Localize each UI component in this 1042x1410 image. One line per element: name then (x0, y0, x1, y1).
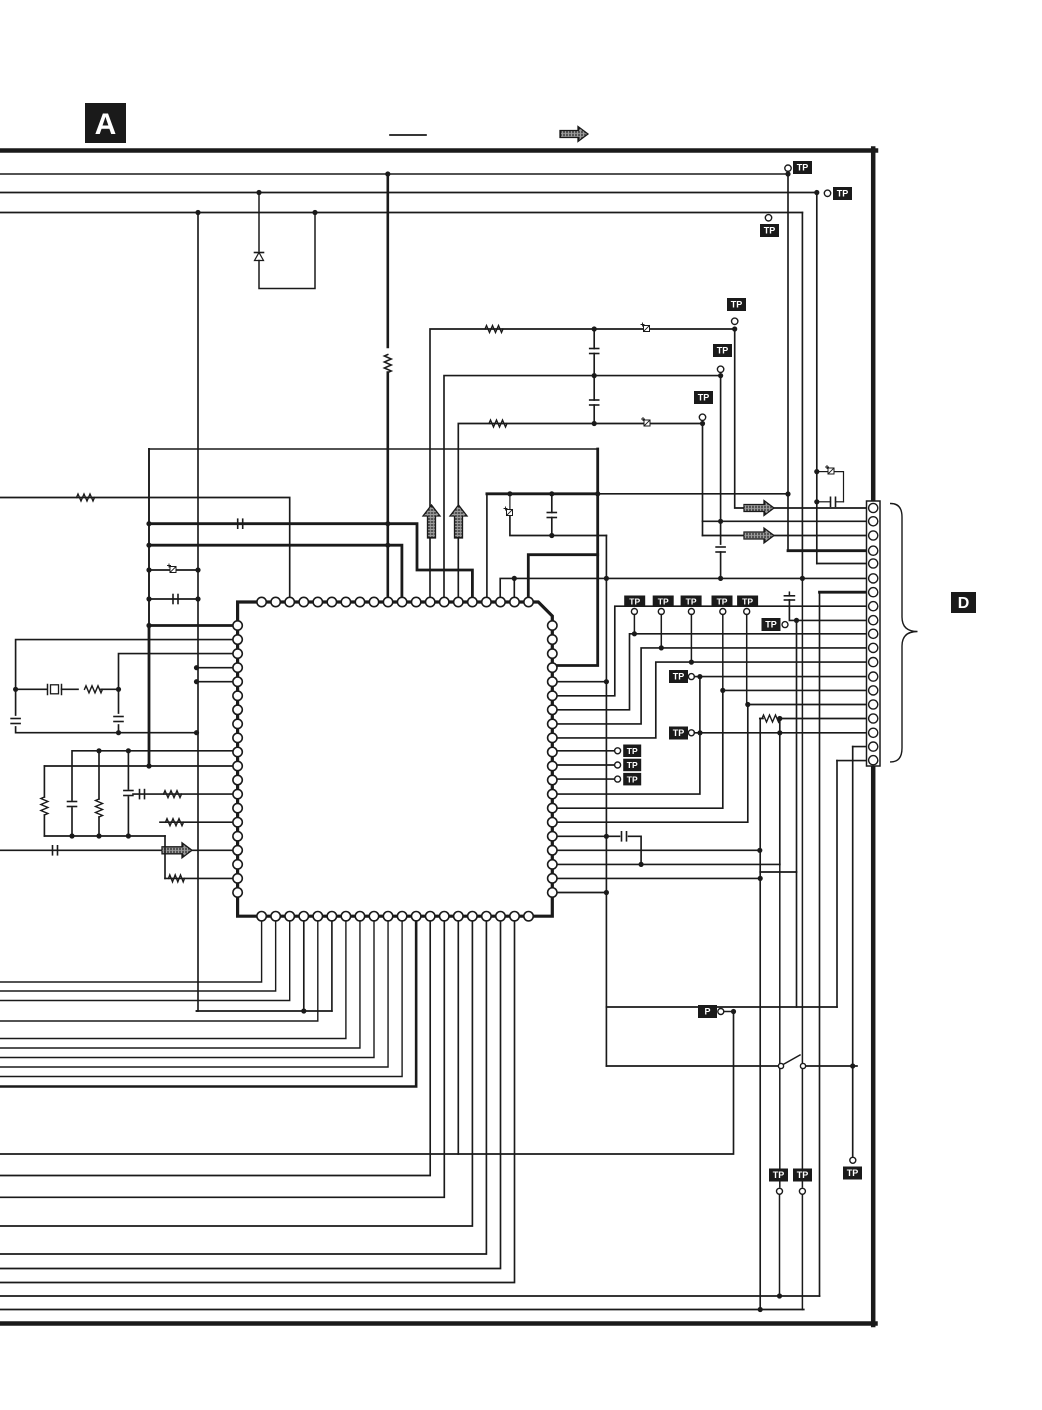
wire x819 down (819, 592, 821, 1296)
wire p3L (119, 654, 238, 713)
svg-text:TP: TP (797, 1170, 809, 1180)
wire TP5 vertical x=720 upper (720, 376, 722, 544)
wire TP5 vertical x=720 lower (720, 552, 722, 578)
test point TPs2 circle (615, 762, 621, 768)
resistor R-p19L (169, 875, 185, 882)
wire x796 upper (796, 620, 798, 872)
svg-text:TP: TP (717, 596, 728, 606)
junction x118/689 (116, 687, 121, 692)
capacitor C-K1 (238, 519, 243, 528)
junction p18/capbranch (639, 862, 644, 867)
svg-text:TP: TP (847, 1168, 859, 1178)
junction ring/625 (146, 623, 151, 628)
test point TProw2 circle (658, 609, 664, 615)
test point TProw3 circle (688, 609, 694, 615)
test point TP1 box (793, 161, 812, 174)
resistor R-p15L (166, 819, 184, 826)
wire net2 y=192.5 (0, 192, 817, 194)
wire TP4 vertical x=735 (735, 329, 747, 508)
test point TPmid1 box (669, 670, 688, 683)
wire crystal net (16, 688, 47, 690)
svg-text:TP: TP (765, 620, 777, 630)
test point TP1 circle (785, 165, 791, 171)
test point TProw5 circle (744, 609, 750, 615)
switch S1 throw (800, 1063, 805, 1068)
svg-text:TP: TP (673, 672, 685, 682)
test point TProw2 box (653, 596, 674, 608)
wire bottom bundle1 line6 (0, 916, 360, 1048)
wire ring right (thick) (553, 449, 598, 666)
capacitor C-pin9 (784, 596, 794, 600)
junction 732/x196 (194, 730, 199, 735)
wire p6R (552, 606, 869, 696)
test point TP5 circle (717, 366, 723, 372)
diode D1 (255, 253, 264, 261)
capacitor C-p17L (53, 846, 58, 855)
capacitor C-x720 (716, 547, 725, 552)
svg-text:TP: TP (773, 1170, 785, 1180)
test point TPs3 circle (615, 776, 621, 782)
wire TP1 vertical x=788 (787, 171, 789, 550)
test point TPs1 box (623, 745, 641, 758)
wire crystal to R (62, 688, 79, 690)
junction TProw1 (632, 631, 637, 636)
wire pin4b stub (303, 916, 305, 1011)
resistor R-x99 (96, 799, 103, 817)
wire x594 seg2 (593, 354, 595, 376)
wire bottom bundle1 line8 (0, 916, 388, 1067)
wire x837 (836, 761, 838, 1007)
junction p15R (745, 702, 750, 707)
svg-text:P: P (704, 1007, 710, 1017)
test point TP4 box (727, 298, 746, 311)
wire bottom bundle2 line6 (0, 916, 515, 1282)
capacitor C-x128 (124, 791, 133, 796)
offpage arrow up 1 (423, 505, 440, 538)
wire TProw2 stub (660, 615, 662, 648)
capacitor C-p13L (140, 790, 145, 799)
wire connector pin3 feed left (703, 535, 748, 537)
offpage arrow up 2 (450, 505, 467, 538)
wire connector pin3 feed right (774, 535, 869, 537)
junction x720/pin6wire (718, 576, 723, 581)
wire x853 (852, 747, 854, 1157)
wire TP6 vertical x=702 (702, 424, 704, 536)
wire x118 lower (118, 725, 120, 733)
wire p12R stub (552, 778, 614, 780)
polar symbol y570 (168, 564, 177, 573)
wire p9R (552, 662, 869, 738)
crystal X1 (48, 685, 62, 695)
junction K1/x388 (385, 521, 390, 526)
junction P/x733 (731, 1009, 736, 1014)
wire x803 below circle (801, 1195, 803, 1310)
junction x760/1309 (758, 1307, 763, 1312)
junction TP1 (785, 171, 790, 176)
junction 535/cap552 (549, 533, 554, 538)
resistor R-A (485, 326, 503, 333)
wire step y872 (760, 871, 796, 873)
wire TProw5 stub (746, 615, 748, 705)
junction ring/K2 (146, 543, 151, 548)
wire p19L vert (164, 836, 166, 878)
junction TProw2 (659, 645, 664, 650)
junction 570/x198 (195, 567, 200, 572)
wire TProw1 stub (633, 615, 635, 634)
wire thick vertical x=388 upper (386, 174, 389, 347)
wire p10R stub (552, 750, 614, 752)
resistor R-y497 (77, 494, 95, 501)
wire connector pin16 feed (779, 718, 869, 720)
capacitor C-x118 (114, 717, 123, 722)
test point TP4 circle (732, 318, 738, 324)
test point TP3 box (760, 224, 779, 237)
wire p11R stub (552, 764, 614, 766)
wire bottom bundle1 line5 (0, 916, 346, 1038)
IC U1 right pins (548, 621, 557, 897)
wire cap552 up (551, 494, 553, 513)
wire cluster loop right (835, 472, 844, 502)
resistor R-C (489, 420, 507, 427)
wire connector pin5 feed (817, 563, 869, 565)
junction B/x594 (592, 373, 597, 378)
wire x733 down (0, 1012, 734, 1155)
capacitor C-y599 (173, 595, 178, 604)
offpage arrow p17L (162, 843, 192, 858)
junction x606/578 (604, 576, 609, 581)
test point TPmid2 circle (688, 730, 694, 736)
junction TP2 (814, 190, 819, 195)
wire bottom bundle1 line2 (0, 916, 276, 991)
junction x788/bus494 (785, 491, 790, 496)
wire x796 (796, 872, 798, 1007)
border frame right edge (lower) (871, 768, 876, 1325)
wire TP2 vertical x=817 (816, 193, 818, 564)
junction C/x594 (592, 421, 597, 426)
switch S1 lever (784, 1055, 800, 1064)
junction x720/pin2wire (718, 519, 723, 524)
wire p20R (552, 892, 606, 894)
wire P stub (724, 1011, 734, 1013)
IC U1 top pins (257, 597, 533, 606)
junction bus494/510 (507, 491, 512, 496)
resistor R-x388 (384, 355, 391, 373)
junction 732/x118 (116, 730, 121, 735)
wire x99 down (98, 751, 100, 799)
wire x594 seg1 (593, 329, 595, 349)
wire p11 corner down (43, 766, 45, 797)
wire p1L thick (149, 624, 238, 627)
wire p13L (133, 793, 238, 795)
wire bottom bundle1 line9 (0, 916, 402, 1076)
junction p17R/x760 (757, 848, 762, 853)
test point TPpin9 circle (782, 622, 788, 628)
test point TPbot3 circle (850, 1157, 856, 1163)
junction ring/K1 (146, 521, 151, 526)
wire pin3top feed (0, 498, 290, 603)
capacitor C-p16 (622, 832, 627, 841)
test point P box (698, 1005, 717, 1018)
wire x128 lower (127, 797, 129, 836)
junction pin9/x796 (794, 618, 799, 623)
polar symbol wire C (642, 418, 651, 427)
offpage arrow pin3 (744, 528, 774, 543)
legend arrow (560, 127, 588, 142)
wire pin19top stub (513, 578, 515, 602)
wire bus494 thick (487, 492, 598, 495)
junction bus494/x598 (595, 491, 600, 496)
wire cluster top loop (817, 471, 827, 473)
wire ring top (149, 448, 598, 450)
junction p20R/x606 (604, 890, 609, 895)
junction 578/pin19top (512, 576, 517, 581)
junction pin17wire (697, 730, 702, 735)
wire pin16conn left (760, 718, 763, 720)
test point TProw4 box (712, 596, 733, 608)
test point TPs1 circle (615, 748, 621, 754)
wire x15 lower (16, 727, 197, 733)
junction x780/1296 (777, 1293, 782, 1298)
junction x15/689 (13, 687, 18, 692)
wire x606 vertical (605, 536, 607, 1067)
wire net3 corner down x=802 (801, 213, 803, 579)
junction K2/x388 (385, 543, 390, 548)
wire y836 (44, 835, 165, 837)
wire pin9 cap down (789, 600, 869, 620)
junction net1/x388 (385, 171, 390, 176)
IC U1 bottom pins (257, 912, 533, 921)
wire thick vertical x=149 lower (148, 626, 151, 767)
wire p16R cap right (629, 836, 642, 864)
wire bus494 left vertical (486, 494, 488, 602)
capacitor cluster (831, 497, 836, 506)
wire p15L (160, 821, 238, 823)
wire p18R (552, 863, 780, 865)
junction ring/599 (146, 596, 151, 601)
wire cap552 down (551, 518, 553, 536)
IC U1 left pins (233, 621, 242, 897)
wire x72 lower (71, 808, 73, 836)
wire p4L (197, 667, 238, 669)
wire long vertical x=198 (197, 213, 199, 1012)
wire bottom bundle1 line1 (0, 916, 262, 982)
junction net2/diode (256, 190, 261, 195)
wire x594 seg3 (593, 376, 595, 400)
sheet label A box (85, 103, 126, 143)
wire switch left (606, 1065, 778, 1067)
wire x44 lower (43, 815, 45, 836)
capacitor C-594b (590, 400, 599, 405)
wire x510 down2 (510, 517, 607, 536)
junction x817 cluster a (814, 469, 819, 474)
wire x780 mid (779, 719, 781, 865)
junction pin16conn/x780 (777, 716, 782, 721)
junction 836/x128 (126, 833, 131, 838)
junction x817 cluster b (814, 499, 819, 504)
junction p14R (720, 688, 725, 693)
svg-text:TP: TP (627, 760, 638, 770)
wire bus y=1011 (197, 1010, 332, 1012)
junction C/TP6 (700, 421, 705, 426)
test point TPmid2 box (669, 727, 688, 740)
junction bus494/cap552 (549, 491, 554, 496)
IC U1 outline (238, 602, 553, 916)
connector J1 body (867, 501, 881, 766)
test point TP2 circle (824, 190, 830, 196)
svg-text:TP: TP (764, 226, 776, 236)
svg-text:TP: TP (731, 300, 743, 310)
wire p5L (197, 681, 238, 683)
junction TProw3 (689, 660, 694, 665)
border frame right edge (upper) (871, 149, 876, 503)
junction net3/x199 (195, 210, 200, 215)
test point TProw3 box (681, 596, 702, 608)
wire bottom bundle2 line1 (0, 916, 430, 1175)
test point TProw4 circle (720, 609, 726, 615)
svg-text:TP: TP (658, 596, 669, 606)
wire bus494 thin right (598, 493, 788, 495)
junction A/TP4 (732, 326, 737, 331)
svg-text:TP: TP (717, 346, 729, 356)
test point TPbot2 circle (799, 1188, 805, 1194)
wire bus K2 (thick) (149, 545, 402, 602)
wire pin6b stub (331, 916, 333, 1011)
wire bottom bundle2 line3 (0, 916, 472, 1226)
wire diode branch down (258, 193, 260, 252)
test point P circle (718, 1009, 724, 1015)
wire connector pin2 feed (703, 520, 870, 522)
junction 836/x99 (96, 833, 101, 838)
wire A y=329 (430, 329, 735, 602)
junction x149/p11L (146, 763, 151, 768)
resistor R-x44 (41, 797, 48, 815)
junction A/x594 (592, 326, 597, 331)
connector J1 pins (869, 503, 878, 764)
svg-text:TP: TP (686, 596, 697, 606)
wire p13R (552, 677, 700, 795)
junction p10L/x99 (96, 748, 101, 753)
test point TPs2 box (623, 759, 641, 772)
polar symbol x510 (504, 507, 513, 516)
resistor R-pin16conn (762, 715, 780, 722)
junction p13R (697, 674, 702, 679)
junction x606/p5 (604, 679, 609, 684)
junction p10L/x128 (126, 748, 131, 753)
legend dash (390, 134, 426, 136)
wire p7R (552, 634, 869, 710)
wire x128 down (127, 751, 129, 789)
capacitor C-x72 (68, 802, 77, 807)
wire p17R (552, 849, 760, 851)
wire TProw3 stub (690, 615, 692, 663)
test point TProw1 circle (631, 609, 637, 615)
wire y570 branch (149, 569, 198, 571)
svg-text:TP: TP (627, 746, 638, 756)
border frame top edge (0, 148, 876, 153)
connector brace (891, 504, 918, 762)
wire x99 lower (98, 817, 100, 836)
svg-text:TP: TP (742, 596, 753, 606)
wire cluster cap left (817, 501, 831, 503)
svg-text:A: A (95, 108, 117, 141)
svg-text:TP: TP (627, 774, 638, 784)
wire p11L (44, 765, 237, 767)
wire bottom bundle2 line5 (0, 916, 501, 1268)
test point TProw5 box (737, 596, 758, 608)
junction net3/x315 (312, 210, 317, 215)
junction x802/pin6wire (800, 576, 805, 581)
border frame bottom edge (0, 1321, 876, 1326)
wire p16R (552, 835, 619, 837)
wire bottom bundle1 line3 (0, 916, 290, 1000)
test point TP3 circle (765, 215, 771, 221)
svg-text:D: D (958, 595, 970, 612)
test point TPbot1 circle (777, 1188, 783, 1194)
test point TPpin9 box (762, 618, 781, 631)
wire pin6conn y=578 (500, 578, 869, 602)
wire connector pin1 feed (774, 507, 869, 509)
wire p2L (16, 640, 238, 715)
wire pin20top feed (thick) (528, 555, 597, 602)
junction p5L (194, 679, 199, 684)
wire C y=423.5 (458, 424, 702, 603)
wire switch right (806, 1065, 857, 1067)
wire diode to loop (259, 213, 315, 289)
test point TP5 box (713, 344, 732, 357)
svg-text:TP: TP (797, 163, 809, 173)
test point TP6 circle (699, 414, 705, 420)
svg-text:TP: TP (673, 728, 685, 738)
wire x510 down (509, 494, 511, 510)
capacitor C-594a (590, 349, 599, 354)
svg-text:TP: TP (698, 393, 710, 403)
wire pin15b stub (457, 916, 459, 1154)
wire p5R (552, 681, 606, 683)
wire bottom bundle1 line4 (0, 916, 318, 1021)
wire connector pin19 feed (837, 760, 869, 762)
wire bottom rail1 y=1296 (0, 1295, 820, 1297)
wire bottom rail2 y=1309.5 (0, 1309, 804, 1311)
wire B y=375.6 (444, 376, 721, 602)
switch S1 pole (778, 1063, 783, 1068)
test point TProw1 box (624, 596, 645, 608)
junction ring/570 (146, 567, 151, 572)
sheet label D box (951, 592, 976, 613)
junction switch/x853 (850, 1063, 855, 1068)
wire x780 below circle (779, 1195, 781, 1297)
polar symbol cluster (826, 466, 835, 475)
wire pin9 cap stub (788, 592, 790, 596)
wire TProw4 stub (722, 615, 724, 691)
svg-text:TP: TP (837, 189, 849, 199)
wire bus K1 (thick) (149, 524, 472, 602)
wire pin7 feed thick (820, 591, 870, 594)
svg-text:TP: TP (629, 596, 640, 606)
junction p19R/x760 (758, 876, 763, 881)
test point TPbot3 box (843, 1167, 862, 1180)
test point TPs3 box (623, 773, 641, 786)
wire cluster cap right (836, 501, 844, 503)
wire connector pin18 feed (853, 746, 869, 748)
wire p10L (72, 751, 238, 800)
test point TP2 box (833, 187, 852, 200)
offpage arrow pin1 (744, 501, 774, 516)
wire x594 seg4 (593, 405, 595, 424)
junction x780/pin17conn (777, 730, 782, 735)
wire bottom bundle1 line10 (0, 916, 416, 1086)
wire p19L (165, 877, 238, 879)
resistor R-689 (85, 686, 103, 693)
